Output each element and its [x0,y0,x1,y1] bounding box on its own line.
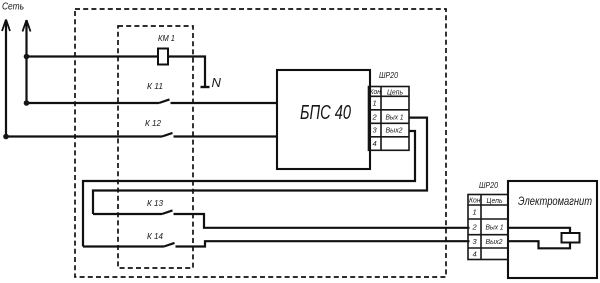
svg-text:1: 1 [373,99,377,108]
svg-text:Цепь: Цепь [487,196,503,205]
svg-text:4: 4 [373,139,377,148]
svg-text:N: N [212,75,222,90]
svg-text:К 11: К 11 [147,82,163,91]
svg-text:1: 1 [473,208,477,217]
svg-text:Вых2: Вых2 [486,237,504,246]
svg-text:2: 2 [372,112,378,121]
svg-text:Сеть: Сеть [2,2,24,13]
svg-text:Электромагнит: Электромагнит [518,196,592,208]
svg-text:ШР20: ШР20 [479,180,498,190]
svg-text:2: 2 [472,223,478,232]
svg-text:Цепь: Цепь [387,87,403,96]
svg-text:К 13: К 13 [147,199,164,208]
svg-text:Кон: Кон [370,89,382,96]
svg-text:Вых 1: Вых 1 [486,223,504,232]
svg-text:Кон: Кон [469,198,481,205]
svg-text:К 14: К 14 [147,232,164,241]
svg-text:Вых2: Вых2 [386,126,404,135]
svg-text:4: 4 [473,249,477,258]
svg-text:К 12: К 12 [145,119,162,128]
svg-text:БПС 40: БПС 40 [300,102,351,124]
svg-text:ШР20: ШР20 [379,70,398,80]
svg-text:Вых 1: Вых 1 [386,112,404,121]
svg-text:КМ 1: КМ 1 [158,34,175,43]
